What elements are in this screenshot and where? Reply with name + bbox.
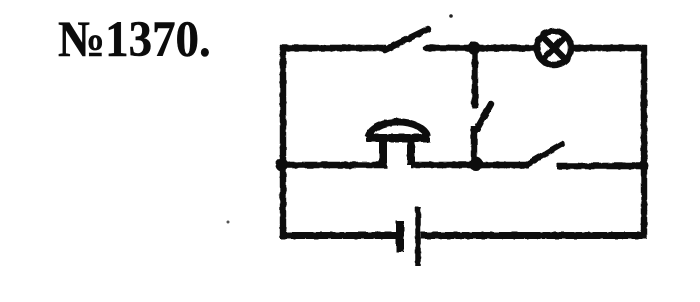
wire right vertical [641,45,647,238]
node junction middle-right [639,161,649,171]
push-button SB1 dome [368,122,428,137]
wire middle center segment [411,162,529,168]
node junction top [468,42,481,55]
node junction middle-center [469,157,483,171]
wire branch vertical lower [471,126,477,165]
push-button SB1 base bar [366,134,430,142]
wire top middle segment [426,45,535,51]
battery GB1 short plate [396,221,404,252]
lamp HL1 circle [537,31,571,65]
wire middle right segment [557,163,647,169]
speck dot lower [227,221,230,224]
switch S3 blade (middle right, open) [528,144,562,164]
wire branch vertical upper [472,48,478,108]
push-button SB1 left stem [379,137,387,165]
wire bottom right segment [421,232,647,239]
wire top right segment [572,45,647,51]
wire middle left segment [280,162,387,168]
push-button SB1 right stem [407,137,415,165]
node junction middle-left [276,159,289,172]
switch S2 blade (vertical branch, open) [477,104,491,129]
wire left vertical [280,45,286,238]
problem number label [58,11,211,69]
battery GB1 long plate [415,207,421,266]
speck dot upper [449,14,453,18]
wire bottom left segment [280,232,397,239]
wire top left segment [280,45,386,51]
lamp HL1 cross [543,37,565,59]
switch S1 blade (top, open) [385,29,428,50]
